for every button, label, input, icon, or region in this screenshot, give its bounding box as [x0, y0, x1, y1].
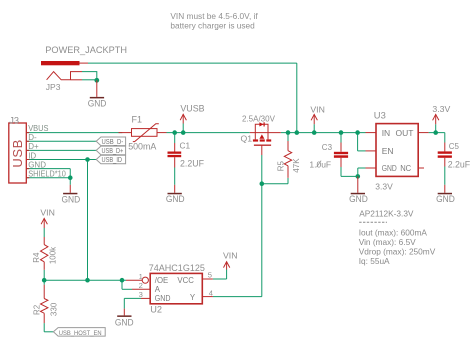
svg-text:GND: GND	[115, 317, 134, 327]
svg-text:Vdrop (max): 250mV: Vdrop (max): 250mV	[359, 246, 436, 256]
svg-text:VBUS: VBUS	[28, 124, 48, 133]
svg-text:3.3V: 3.3V	[375, 182, 393, 192]
svg-text:USB_ID: USB_ID	[102, 156, 123, 164]
svg-text:USB_D+: USB_D+	[102, 147, 124, 155]
svg-text:POWER_JACKPTH: POWER_JACKPTH	[45, 45, 127, 55]
svg-text:Q1: Q1	[241, 133, 253, 143]
svg-text:IN: IN	[382, 128, 391, 138]
svg-text:R5: R5	[276, 161, 285, 172]
svg-text:330: 330	[50, 302, 59, 316]
svg-text:VIN: VIN	[310, 105, 324, 115]
svg-text:GND: GND	[155, 294, 171, 303]
svg-text:2.5A/30V: 2.5A/30V	[242, 114, 276, 123]
svg-text:USB_D-: USB_D-	[102, 138, 124, 146]
svg-text:47K: 47K	[292, 158, 301, 173]
svg-text:OUT: OUT	[396, 128, 414, 138]
svg-text:SHIELD*10: SHIELD*10	[28, 170, 66, 179]
svg-text:GND: GND	[436, 194, 455, 204]
svg-text:2.2uF: 2.2uF	[448, 159, 471, 169]
svg-text:3: 3	[139, 290, 143, 299]
svg-text:R4: R4	[32, 252, 41, 263]
svg-text:USB: USB	[10, 139, 25, 168]
svg-text:3.3V: 3.3V	[432, 104, 450, 114]
svg-text:1: 1	[139, 272, 143, 281]
svg-text:500mA: 500mA	[128, 142, 156, 152]
svg-text:AP2112K-3.3V: AP2112K-3.3V	[359, 208, 414, 218]
svg-text:F1: F1	[132, 115, 143, 125]
svg-text:Iout (max): 600mA: Iout (max): 600mA	[359, 227, 428, 237]
svg-text:U2: U2	[150, 304, 162, 314]
svg-text:Y: Y	[190, 293, 196, 302]
svg-text:Iq: 55uA: Iq: 55uA	[359, 256, 390, 266]
svg-text:100k: 100k	[49, 246, 58, 264]
svg-text:74AHC1G125: 74AHC1G125	[149, 263, 205, 273]
svg-text:VIN: VIN	[40, 207, 54, 217]
svg-text:A: A	[155, 285, 161, 294]
svg-text:battery charger is used: battery charger is used	[170, 20, 255, 30]
svg-text:GND: GND	[382, 163, 397, 173]
svg-text:VCC: VCC	[177, 276, 194, 285]
svg-text:VIN: VIN	[223, 250, 237, 260]
svg-text:C1: C1	[180, 140, 191, 150]
svg-text:ID: ID	[28, 151, 36, 160]
svg-text:Vin (max): 6.5V: Vin (max): 6.5V	[359, 237, 416, 247]
svg-text:U3: U3	[374, 109, 386, 120]
svg-text:1.0uF: 1.0uF	[309, 160, 331, 170]
svg-text:2.2UF: 2.2UF	[180, 158, 205, 168]
svg-text:R2: R2	[32, 304, 41, 315]
svg-text:VUSB: VUSB	[180, 104, 204, 114]
svg-text:GND: GND	[62, 194, 81, 204]
svg-text:C5: C5	[449, 142, 460, 151]
svg-text:2: 2	[139, 281, 143, 290]
svg-text:NC: NC	[400, 163, 411, 173]
svg-text:4: 4	[209, 289, 213, 298]
svg-text:/OE: /OE	[155, 276, 168, 285]
svg-text:5: 5	[208, 271, 212, 280]
svg-text:JP3: JP3	[46, 82, 61, 92]
svg-text:USB_HOST_EN: USB_HOST_EN	[59, 330, 102, 337]
svg-text:D+: D+	[28, 142, 39, 151]
svg-text:GND: GND	[166, 194, 185, 204]
svg-text:EN: EN	[382, 146, 394, 156]
svg-text:GND: GND	[88, 99, 107, 109]
svg-text:D-: D-	[28, 133, 37, 142]
svg-text:C3: C3	[322, 143, 333, 152]
svg-text:GND: GND	[28, 160, 46, 169]
svg-text:GND: GND	[349, 194, 368, 204]
svg-text:J3: J3	[9, 116, 19, 126]
